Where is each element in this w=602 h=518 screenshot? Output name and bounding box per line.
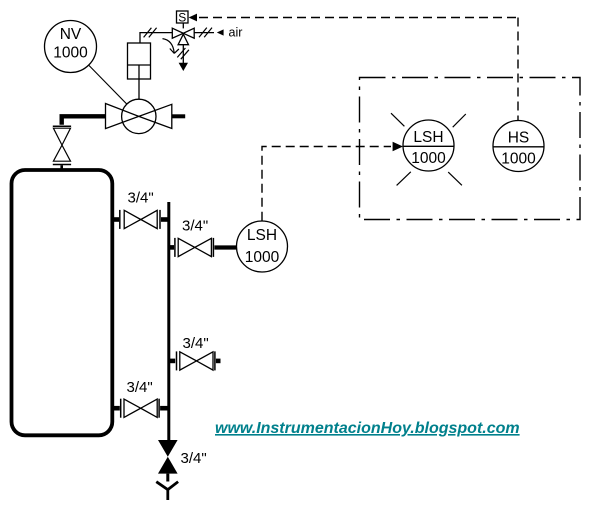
svg-text:LSH: LSH: [247, 227, 277, 244]
svg-text:NV: NV: [60, 26, 82, 43]
svg-text:3/4": 3/4": [183, 335, 209, 352]
vent arrowhead (down): [179, 63, 188, 71]
actuator stem: [138, 79, 140, 100]
panel (dash-dot boundary box): [360, 78, 581, 220]
wire: pneumatic supply line right of 3-way valve: [194, 32, 214, 34]
svg-text:3/4": 3/4": [181, 450, 207, 467]
svg-text:1000: 1000: [501, 151, 536, 168]
manual valve V1 (vertical, above tank): [53, 126, 71, 164]
pipe: thick line from elbow to control valve: [62, 116, 106, 125]
wire: pneumatic line from 3-way valve to actuator: [140, 33, 172, 43]
drain funnel: [156, 482, 178, 500]
instrument bubble HS 1000 (panel): [493, 121, 544, 172]
instrument bubble NV 1000: [45, 21, 97, 73]
svg-text:HS: HS: [508, 130, 530, 147]
svg-text:3/4": 3/4": [182, 217, 208, 234]
wire: dashed signal line from solenoid to HS (top horizontal): [199, 17, 518, 19]
valve V2 (tank to riser, upper): [112, 210, 168, 229]
pneumatic double slash on air supply line: [199, 28, 212, 38]
instrument bubble LSH 1000 (panel, shared display): [403, 120, 454, 171]
pneumatic double slash on vent line: [177, 48, 189, 59]
arrowhead into panel LSH bubble: [393, 142, 403, 152]
tank (vessel): [12, 170, 113, 435]
piston actuator: [128, 43, 151, 79]
arrowhead into solenoid box: [189, 14, 197, 22]
solenoid S box: [177, 11, 189, 25]
pneumatic double slash on actuator line: [144, 28, 157, 38]
svg-text:1000: 1000: [245, 249, 280, 266]
wire: dashed signal line down to HS bubble: [517, 18, 519, 121]
valve V4 (riser, open stub right): [170, 351, 221, 370]
valve V5 (tank to riser, lower): [112, 399, 168, 418]
pipe: riser header: [167, 202, 170, 441]
wire: vent line below 3-way valve: [182, 45, 184, 63]
interlock X strokes around panel LSH bubble: [391, 113, 466, 185]
wire: stem from S box to 3-way valve: [182, 23, 184, 28]
leader line from NV bubble to valve: [89, 65, 139, 116]
svg-text:3/4": 3/4": [128, 190, 154, 207]
control valve body (globe valve with ball): [106, 99, 172, 133]
stub below drain valve: [166, 474, 169, 482]
svg-text:air: air: [229, 26, 243, 40]
instrument bubble LSH 1000 (field): [237, 221, 288, 272]
fail-action curved arrow: [163, 39, 179, 54]
3-way solenoid valve: [172, 28, 194, 45]
stub from V1 to tank top: [60, 165, 63, 169]
drain valve (normally closed, filled): [158, 440, 178, 474]
svg-text:LSH: LSH: [413, 129, 443, 146]
wire: dashed signal from LSH field up and right to panel: [262, 147, 391, 221]
arrowhead for air supply: [217, 29, 224, 35]
svg-text:www.InstrumentacionHoy.blogspo: www.InstrumentacionHoy.blogspot.com: [215, 420, 520, 437]
svg-text:3/4": 3/4": [127, 379, 153, 396]
valve V3 (riser to LSH 1000): [170, 238, 237, 257]
svg-text:S: S: [178, 11, 186, 25]
pipe: thick stub right of control valve: [172, 114, 185, 118]
svg-text:1000: 1000: [411, 150, 446, 167]
svg-text:1000: 1000: [53, 45, 88, 62]
